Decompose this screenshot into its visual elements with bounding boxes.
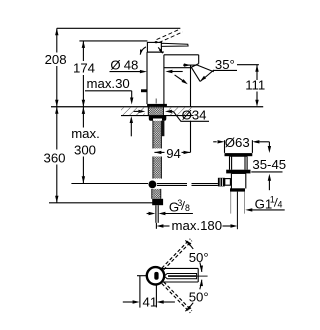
- svg-text:41: 41: [143, 295, 158, 310]
- svg-text:300: 300: [74, 142, 96, 157]
- svg-text:174: 174: [73, 61, 95, 76]
- svg-text:8: 8: [185, 203, 190, 213]
- svg-text:48: 48: [124, 58, 139, 73]
- svg-text:35°: 35°: [215, 57, 235, 72]
- svg-text:1: 1: [270, 195, 275, 205]
- svg-text:111: 111: [245, 78, 265, 93]
- svg-text:max.180: max.180: [172, 218, 223, 233]
- svg-text:94: 94: [166, 146, 181, 161]
- svg-text:Ø63: Ø63: [225, 135, 250, 150]
- svg-text:max.: max.: [71, 126, 100, 141]
- svg-text:360: 360: [44, 150, 66, 165]
- svg-text:50°: 50°: [189, 250, 209, 265]
- svg-text:50°: 50°: [189, 289, 209, 304]
- svg-text:max.30: max.30: [87, 76, 130, 91]
- svg-text:4: 4: [278, 199, 283, 209]
- svg-text:Ø34: Ø34: [182, 107, 207, 122]
- svg-text:Ø: Ø: [110, 58, 120, 73]
- svg-text:35-45: 35-45: [252, 157, 286, 172]
- svg-text:3: 3: [177, 198, 182, 208]
- svg-text:208: 208: [45, 52, 67, 67]
